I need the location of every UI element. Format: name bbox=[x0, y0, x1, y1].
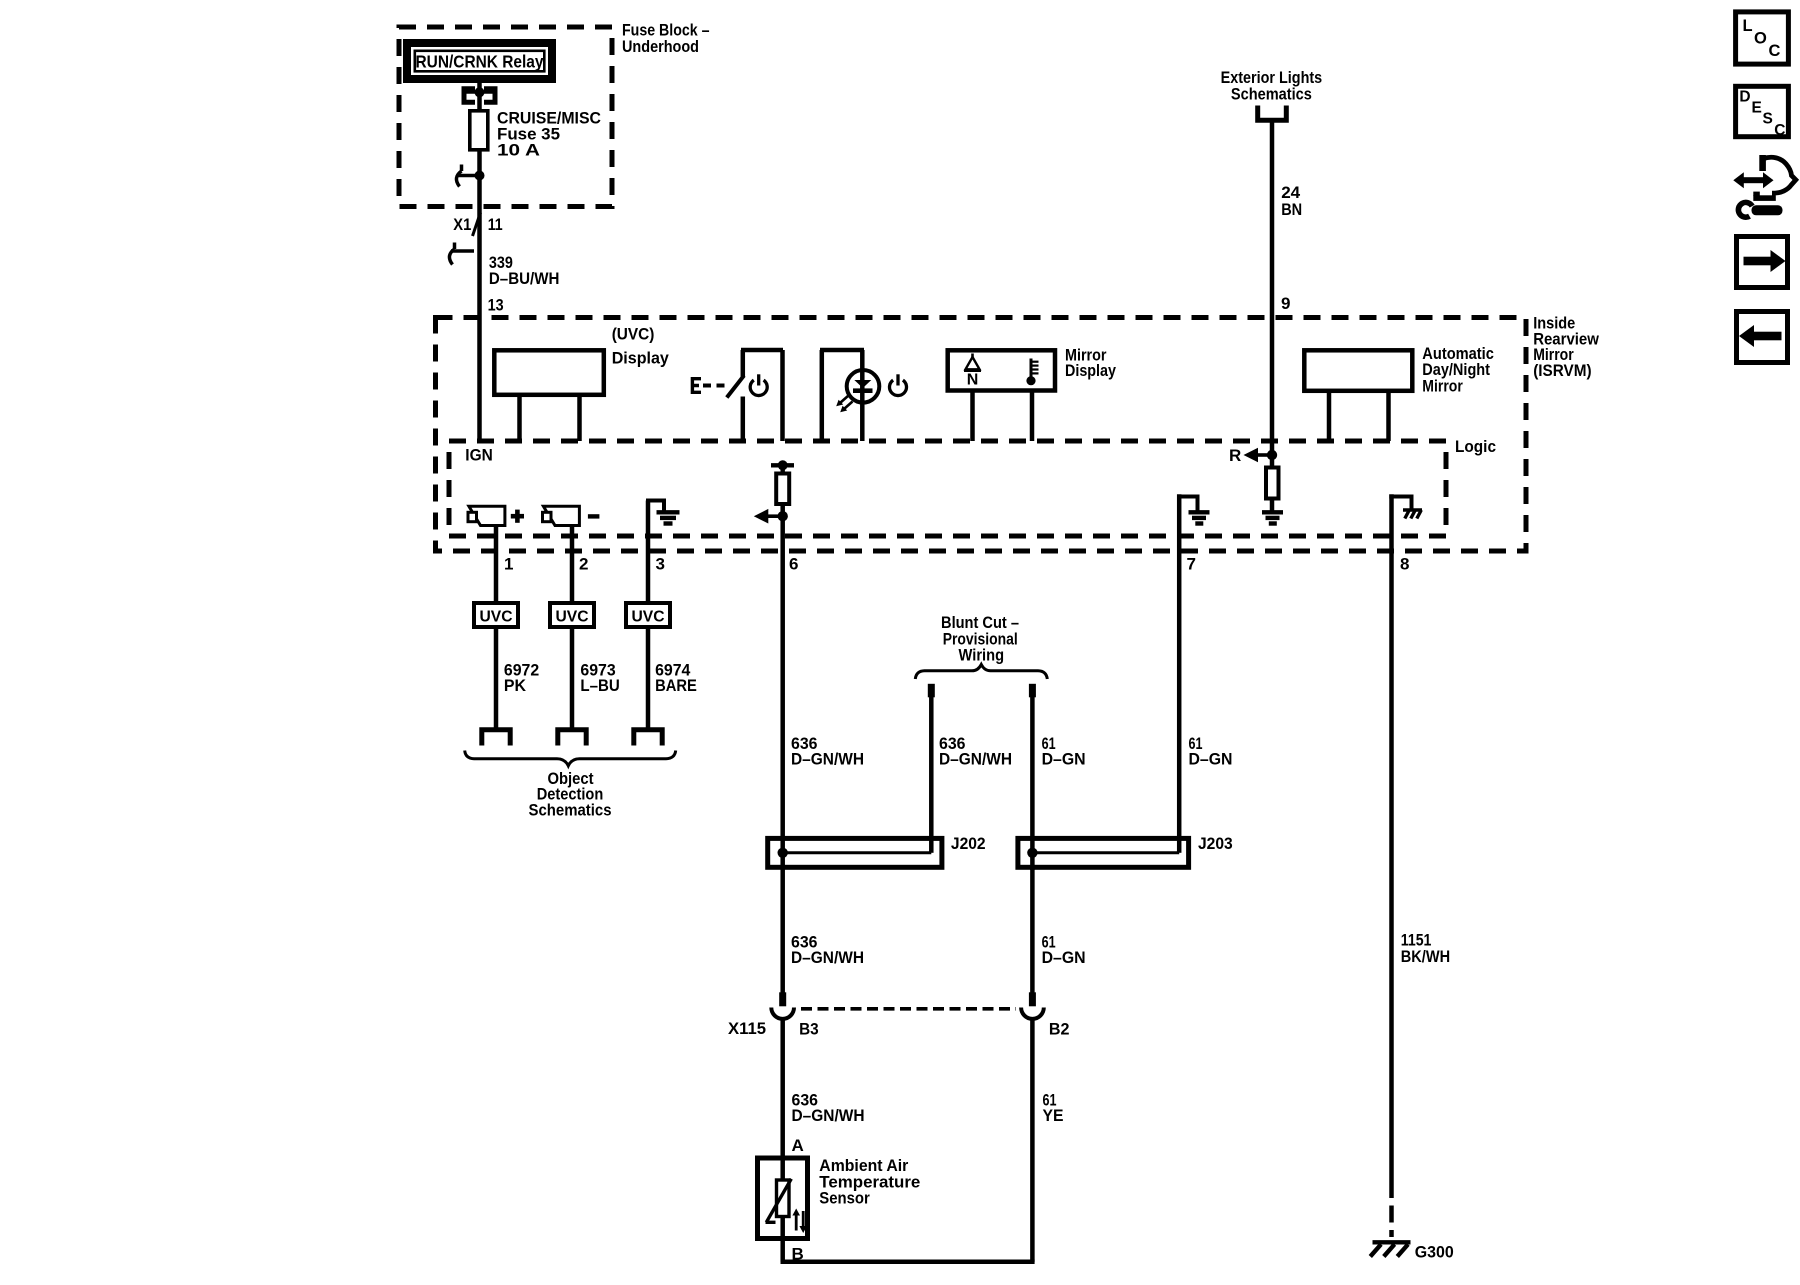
svg-text:Sensor: Sensor bbox=[819, 1189, 870, 1208]
nav icon harness tools bbox=[1733, 155, 1796, 217]
splice label J203 bbox=[1198, 834, 1233, 853]
signal ground below resistor R bbox=[1262, 512, 1283, 523]
connector X115 dashed link bbox=[801, 1007, 1016, 1011]
svg-text:D–GN: D–GN bbox=[1189, 749, 1233, 768]
ambient air temperature sensor box bbox=[758, 1158, 808, 1239]
wire label 61 D-GN blunt cut bbox=[1042, 734, 1086, 768]
svg-text:BK/WH: BK/WH bbox=[1401, 947, 1450, 966]
pin 6 wire with arrow junction bbox=[754, 504, 788, 836]
wire 24 BN from exterior lights bbox=[1270, 120, 1275, 455]
pin B label bbox=[792, 1245, 804, 1264]
svg-text:BARE: BARE bbox=[655, 676, 697, 695]
wire 636 B3 to sensor bbox=[780, 1019, 785, 1156]
wire label 1151 BK/WH bbox=[1401, 930, 1450, 966]
svg-text:L–BU: L–BU bbox=[580, 676, 619, 695]
svg-text:B3: B3 bbox=[799, 1020, 819, 1039]
svg-text:6: 6 bbox=[789, 555, 798, 574]
svg-text:X1: X1 bbox=[453, 215, 471, 234]
compass glyph bbox=[964, 354, 981, 389]
exterior lights schematics label bbox=[1221, 68, 1323, 104]
wire label 61 YE bbox=[1043, 1090, 1064, 1125]
switch blade bbox=[727, 376, 744, 398]
wire 6973 L-BU bbox=[570, 627, 575, 728]
splice label J202 bbox=[951, 834, 986, 853]
svg-text:1: 1 bbox=[504, 555, 513, 574]
photosensor plus bbox=[468, 506, 505, 525]
wire from relay through fuse to ISRVM pin 13 bbox=[477, 83, 482, 441]
svg-text:UVC: UVC bbox=[632, 609, 665, 626]
nav icon back arrow bbox=[1737, 312, 1788, 363]
connector X115 B3 terminal bbox=[771, 1008, 794, 1019]
exterior lights off-page bracket bbox=[1258, 106, 1287, 121]
wire label 636 D-GN/WH blunt cut bbox=[939, 734, 1012, 768]
svg-text:G300: G300 bbox=[1415, 1243, 1454, 1262]
svg-text:O: O bbox=[1754, 30, 1767, 48]
svg-text:L: L bbox=[1743, 17, 1753, 35]
svg-text:10 A: 10 A bbox=[497, 141, 540, 160]
svg-text:D–GN/WH: D–GN/WH bbox=[792, 1106, 865, 1125]
automatic day/night mirror box bbox=[1304, 350, 1412, 391]
LED power symbol bbox=[890, 374, 907, 395]
LED light arrows bbox=[836, 396, 852, 413]
wire label 636 D-GN/WH pin 6 bbox=[791, 734, 864, 768]
splice J202 bbox=[768, 836, 942, 870]
mirror display label bbox=[1065, 346, 1116, 380]
connector X115 B2 terminal bbox=[1021, 992, 1044, 1019]
off-page connector pin 1 bbox=[482, 730, 510, 746]
svg-text:C: C bbox=[1769, 42, 1781, 60]
connector X1 labels bbox=[453, 215, 502, 234]
svg-text:D–GN: D–GN bbox=[1042, 948, 1086, 967]
pin number labels bbox=[504, 555, 1409, 574]
wire 6974 BARE bbox=[646, 627, 651, 728]
UVC connector box 3 bbox=[626, 603, 670, 627]
svg-text:J203: J203 bbox=[1198, 834, 1233, 853]
connector X1 crossing slash bbox=[473, 213, 481, 237]
svg-text:11: 11 bbox=[488, 215, 503, 234]
off-page connector pin 3 bbox=[634, 730, 662, 746]
svg-text:Display: Display bbox=[1065, 361, 1116, 380]
pin A label bbox=[792, 1136, 804, 1155]
object detection brace bbox=[465, 751, 676, 766]
connector X115 labels bbox=[728, 1019, 1070, 1039]
blunt cut brace bbox=[915, 665, 1047, 680]
svg-text:8: 8 bbox=[1400, 555, 1409, 574]
automatic day/night mirror leg wires bbox=[1329, 391, 1389, 442]
fuse block lower terminal clip bbox=[456, 165, 484, 187]
ambient air temperature sensor label bbox=[819, 1156, 920, 1208]
svg-text:Schematics: Schematics bbox=[529, 800, 612, 819]
svg-text:UVC: UVC bbox=[556, 609, 589, 626]
pin 8 wire internal chassis ground bbox=[1389, 494, 1411, 1181]
thermistor symbol bbox=[766, 1179, 792, 1223]
IGN net label bbox=[465, 446, 493, 465]
LED indicator loop bbox=[820, 350, 864, 441]
fuse block underhood dashed box bbox=[399, 27, 612, 207]
pin 9 label bbox=[1281, 294, 1290, 313]
svg-text:J202: J202 bbox=[951, 834, 986, 853]
svg-text:Logic: Logic bbox=[1455, 437, 1496, 456]
ISRVM dashed box bbox=[436, 318, 1527, 552]
mirror display leg wires bbox=[973, 391, 1033, 442]
svg-text:A: A bbox=[792, 1136, 804, 1155]
blunt cut wire 61 bbox=[1029, 684, 1036, 993]
svg-text:N: N bbox=[967, 371, 979, 388]
logic label bbox=[1455, 437, 1496, 456]
thermistor arrows bbox=[792, 1209, 807, 1234]
svg-text:13: 13 bbox=[488, 295, 504, 314]
UVC connector box 1 bbox=[474, 603, 518, 627]
pin 1 wire bbox=[494, 526, 499, 604]
pin 2 wire bbox=[570, 526, 575, 604]
svg-text:D–GN: D–GN bbox=[1042, 749, 1086, 768]
switch E terminal glyph bbox=[691, 377, 701, 394]
pin 7 wire bbox=[1177, 494, 1200, 853]
chassis ground pin 8 bbox=[1403, 510, 1422, 519]
plus sign bbox=[511, 510, 524, 523]
signal ground pin 3 bbox=[657, 512, 680, 523]
svg-text:PK: PK bbox=[504, 676, 527, 695]
svg-text:E: E bbox=[1752, 100, 1762, 117]
wire 6972 PK bbox=[494, 627, 499, 728]
svg-text:YE: YE bbox=[1043, 1106, 1064, 1125]
svg-text:BN: BN bbox=[1281, 200, 1302, 219]
svg-text:Mirror: Mirror bbox=[1422, 376, 1463, 395]
wire label 636 D-GN/WH sensor bbox=[792, 1090, 865, 1125]
connector X1 terminal clip bbox=[449, 243, 474, 265]
wire 1151 dashed to G300 bbox=[1389, 1181, 1394, 1237]
svg-text:R: R bbox=[1229, 446, 1241, 465]
sensor internal wire bbox=[780, 1158, 785, 1241]
logic dashed box bbox=[449, 441, 1446, 536]
thermometer glyph bbox=[1026, 359, 1038, 386]
wire label 61 D-GN below J203 bbox=[1042, 933, 1086, 968]
minus sign bbox=[588, 514, 600, 518]
ISRVM label bbox=[1533, 314, 1599, 381]
mirror display box bbox=[948, 350, 1055, 390]
UVC connector box 2 bbox=[550, 603, 594, 627]
fuse block label bbox=[622, 21, 710, 56]
svg-text:X115: X115 bbox=[728, 1019, 766, 1038]
LED circle bbox=[847, 370, 880, 403]
blunt cut label bbox=[941, 613, 1019, 665]
switch power symbol bbox=[750, 374, 767, 395]
fuse CRUISE/MISC Fuse 35 10A bbox=[470, 111, 488, 150]
wire label 636 D-GN/WH below J202 bbox=[791, 933, 864, 968]
object detection schematics label bbox=[529, 769, 612, 820]
UVC display box bbox=[494, 350, 604, 395]
wire label 6973 L-BU bbox=[580, 661, 619, 696]
svg-text:Schematics: Schematics bbox=[1231, 84, 1312, 103]
pin 3 wire and internal ground bbox=[646, 501, 666, 604]
svg-text:3: 3 bbox=[656, 555, 665, 574]
nav icon DESC bbox=[1736, 86, 1789, 139]
svg-text:D: D bbox=[1739, 89, 1750, 106]
resistor R night sensing bbox=[1266, 455, 1279, 511]
signal ground pin 7 bbox=[1189, 512, 1210, 523]
svg-text:D–BU/WH: D–BU/WH bbox=[489, 269, 560, 288]
UVC display label bbox=[612, 325, 670, 368]
wire 636 to X115 B3 bbox=[779, 870, 786, 1006]
ground G300 bbox=[1370, 1242, 1410, 1256]
mirror on-off switch loop bbox=[741, 350, 783, 441]
fuse label bbox=[497, 109, 601, 160]
svg-text:9: 9 bbox=[1281, 294, 1290, 313]
svg-text:D–GN/WH: D–GN/WH bbox=[791, 749, 864, 768]
ground G300 label bbox=[1415, 1243, 1454, 1262]
svg-text:Underhood: Underhood bbox=[622, 37, 699, 56]
automatic day/night mirror label bbox=[1422, 344, 1494, 395]
blunt cut wire 636 bbox=[928, 684, 935, 853]
svg-text:(ISRVM): (ISRVM) bbox=[1533, 361, 1591, 380]
off-page connector pin 2 bbox=[558, 730, 586, 746]
R tap junction bbox=[1229, 446, 1277, 465]
splice J203 bbox=[1018, 836, 1189, 870]
svg-text:IGN: IGN bbox=[465, 446, 493, 465]
pin 13 label bbox=[488, 295, 504, 314]
wire label 6972 PK bbox=[504, 661, 539, 696]
nav icon LOC bbox=[1736, 12, 1789, 64]
nav icon next arrow bbox=[1737, 237, 1788, 288]
wire label 61 D-GN pin 7 bbox=[1189, 734, 1233, 768]
wire label 339 D-BU/WH bbox=[489, 253, 560, 288]
wire label 6974 BARE bbox=[655, 661, 697, 696]
relay RUN/CRNK bbox=[407, 43, 552, 79]
svg-text:D–GN/WH: D–GN/WH bbox=[939, 749, 1012, 768]
svg-text:(UVC): (UVC) bbox=[612, 325, 655, 344]
UVC display leg wires bbox=[520, 397, 580, 442]
svg-text:2: 2 bbox=[579, 555, 588, 574]
pin 6 internal tap bar bbox=[771, 460, 794, 473]
svg-text:C: C bbox=[1774, 122, 1785, 139]
svg-text:D–GN/WH: D–GN/WH bbox=[791, 948, 864, 967]
switch dashed actuator line bbox=[703, 384, 725, 388]
svg-text:UVC: UVC bbox=[480, 609, 513, 626]
svg-text:7: 7 bbox=[1187, 555, 1196, 574]
svg-text:S: S bbox=[1763, 111, 1773, 128]
wire label 24 BN bbox=[1281, 183, 1302, 219]
fuse holder terminal top bbox=[464, 87, 495, 102]
svg-text:Display: Display bbox=[612, 349, 670, 368]
resistor pin 6 bbox=[776, 474, 789, 505]
sensor return wire loop bbox=[781, 1019, 1035, 1262]
photosensor minus bbox=[543, 506, 580, 525]
svg-text:B2: B2 bbox=[1049, 1020, 1070, 1039]
svg-text:RUN/CRNK Relay: RUN/CRNK Relay bbox=[416, 52, 544, 72]
